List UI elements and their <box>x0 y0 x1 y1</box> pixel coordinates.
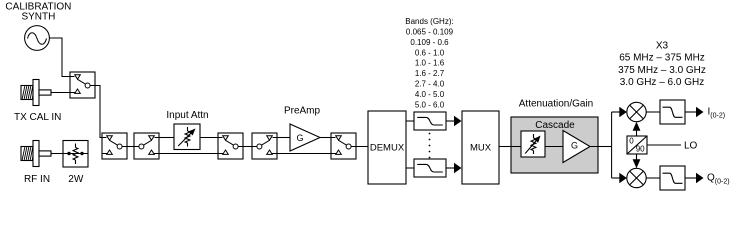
Q mixer <box>627 168 646 187</box>
IQ split vertical <box>611 112 613 178</box>
svg-text:0.109 - 0.6: 0.109 - 0.6 <box>410 38 449 47</box>
arrow LO 90 deg to Q mixer <box>636 154 638 160</box>
switch SW4 preamp bypass in <box>252 133 277 159</box>
svg-text:2W: 2W <box>68 174 84 185</box>
wire input attn to SW3 <box>200 137 218 139</box>
switch SW2 attn bypass in <box>134 133 159 159</box>
arrow into I mixer <box>612 111 621 113</box>
wire SW1 to SW2 <box>127 146 134 148</box>
svg-text:RF IN: RF IN <box>24 174 50 185</box>
cascade attenuator (variable) <box>521 131 545 157</box>
dotted line (more bands) <box>429 133 431 135</box>
band filter 1 (low band) <box>414 112 446 130</box>
wire preamp to SW5 <box>320 137 331 139</box>
calibration synth source (sine generator) <box>25 26 50 51</box>
wire DEMUX to band filter 1 <box>406 120 414 122</box>
svg-text:G: G <box>296 133 303 143</box>
arrow LO 0 deg to I mixer <box>636 130 638 136</box>
I mixer <box>627 102 646 121</box>
wire DEMUX to band filter 8 <box>406 167 414 169</box>
svg-text:G: G <box>571 141 578 151</box>
svg-text:SYNTH: SYNTH <box>21 12 55 23</box>
wire Q mixer to Q filter <box>646 177 660 179</box>
wire synth to cal switch <box>49 38 70 77</box>
svg-text:5.0 - 6.0: 5.0 - 6.0 <box>415 100 445 109</box>
svg-text:MUX: MUX <box>470 143 492 154</box>
svg-text:Attenuation/Gain: Attenuation/Gain <box>519 99 594 110</box>
svg-text:X3: X3 <box>656 41 669 52</box>
I lowpass filter <box>660 100 685 124</box>
arrow Q output <box>685 177 697 179</box>
wire cascade amp to splitter <box>590 146 598 148</box>
limiter 2W <box>63 141 88 168</box>
wire MUX to attenuation-gain block <box>499 146 511 148</box>
wire preamp bypass SW4 to SW5 <box>277 153 331 155</box>
svg-text:PreAmp: PreAmp <box>284 106 321 117</box>
svg-text:0.6 - 1.0: 0.6 - 1.0 <box>415 48 445 57</box>
svg-text:1.6 - 2.7: 1.6 - 2.7 <box>415 69 445 78</box>
arrow band filter 1 to MUX <box>446 120 455 122</box>
wire SW5 to DEMUX <box>356 146 368 148</box>
svg-text:2.7 - 4.0: 2.7 - 4.0 <box>415 80 445 89</box>
cascade amplifier G <box>563 131 590 163</box>
svg-text:3.0 GHz – 6.0 GHz: 3.0 GHz – 6.0 GHz <box>620 77 704 88</box>
wire SW3 to SW4 <box>243 146 252 148</box>
wire SW4 to preamp <box>277 137 290 139</box>
svg-text:Bands (GHz):: Bands (GHz): <box>405 17 453 26</box>
arrow band filter 8 to MUX <box>446 167 455 169</box>
preamp amplifier G <box>290 124 320 151</box>
svg-text:0: 0 <box>629 137 634 146</box>
wire TX CAL IN to cal switch <box>51 92 70 94</box>
switch SW3 attn bypass out <box>218 133 243 159</box>
wire SW2 to input attn <box>159 137 174 139</box>
wire RF IN to 2W limiter <box>51 153 63 155</box>
svg-text:Input Attn: Input Attn <box>166 110 208 121</box>
svg-text:4.0 - 5.0: 4.0 - 5.0 <box>415 90 445 99</box>
TX CAL IN connector <box>21 80 51 106</box>
DEMUX block <box>368 111 406 184</box>
switch SW5 preamp bypass out <box>331 133 356 159</box>
wire SW0 to SW1 top <box>95 86 102 138</box>
svg-text:LO: LO <box>684 141 698 152</box>
LO phase splitter 0/90 <box>627 136 647 154</box>
svg-text:DEMUX: DEMUX <box>370 143 405 154</box>
arrow into Q mixer <box>612 177 621 179</box>
Q lowpass filter <box>660 166 685 190</box>
switch SW1 input select <box>102 133 127 159</box>
svg-text:0.065 - 0.109: 0.065 - 0.109 <box>406 27 454 36</box>
wire attn bypass SW2 to SW3 <box>159 153 218 155</box>
wire I mixer to I filter <box>646 111 660 113</box>
svg-text:65 MHz – 375 MHz: 65 MHz – 375 MHz <box>619 53 705 64</box>
RF IN connector <box>21 141 51 167</box>
arrow I output <box>685 111 697 113</box>
wire into cascade attn <box>511 146 521 148</box>
svg-text:1.0 - 1.6: 1.0 - 1.6 <box>415 59 445 68</box>
LO input wire <box>647 144 681 146</box>
MUX block <box>462 111 499 184</box>
switch SW0 cal select <box>70 72 95 98</box>
svg-text:TX CAL IN: TX CAL IN <box>14 112 61 123</box>
svg-text:90: 90 <box>636 144 645 153</box>
input attenuator (variable) <box>174 124 200 150</box>
wire cascade attn to cascade amp <box>545 146 563 148</box>
svg-text:375 MHz – 3.0 GHz: 375 MHz – 3.0 GHz <box>618 65 706 76</box>
wire to IQ split <box>598 146 612 148</box>
svg-text:Cascade: Cascade <box>535 120 575 131</box>
attenuation/gain cascade block (gray) <box>511 117 598 173</box>
band filter 8 (high band) <box>414 159 446 177</box>
